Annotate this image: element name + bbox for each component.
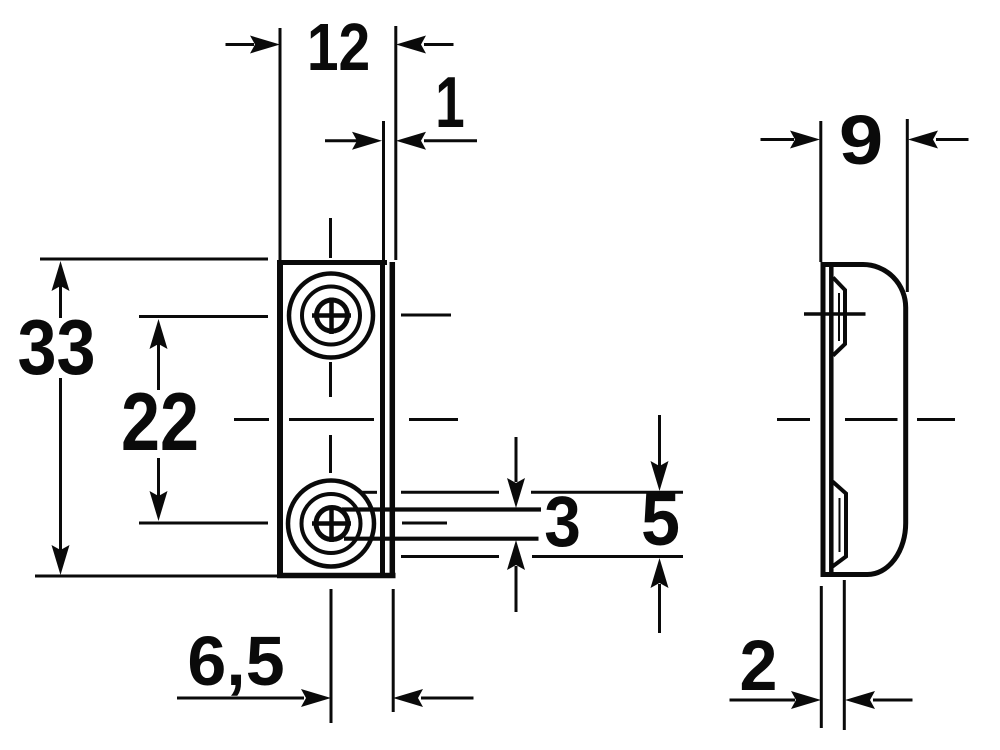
bottom screw hole: outer countersink circle: [288, 481, 374, 567]
horizontal mid centerline left dash: [234, 418, 269, 421]
svg-text:12: 12: [307, 11, 370, 85]
svg-text:6,5: 6,5: [187, 622, 284, 700]
top screw hole: middle circle: [302, 287, 360, 345]
side view: top hole countersink notch: [833, 278, 845, 356]
dim 12: left dimension line: [226, 43, 255, 46]
dim 33: top arrow: [52, 261, 70, 291]
svg-text:5: 5: [641, 479, 680, 561]
dim 5: top extension line left segment: [401, 491, 499, 494]
dim 2: left extension line: [820, 586, 823, 728]
dim 22: bottom arrow: [150, 491, 168, 521]
dim 5: bottom arrow line: [658, 584, 661, 633]
side view: top hole crossing line: [804, 312, 866, 316]
side view: centerline right dash: [917, 418, 955, 421]
dim 33: lower line segment: [59, 378, 62, 550]
dim 33: bottom extension line: [35, 575, 277, 578]
dim 3: bottom arrow line: [515, 566, 518, 612]
dim 9: left arrow: [790, 131, 820, 149]
dim 6.5: left extension line (centerline below plate): [330, 589, 333, 723]
dim 1: right dimension line: [424, 139, 477, 142]
dim 9: right extension line: [906, 119, 909, 292]
top screw hole: outer countersink circle: [289, 274, 373, 358]
dim 12: left arrow: [250, 36, 280, 54]
dim 33: bottom arrow: [52, 545, 70, 575]
svg-text:33: 33: [17, 303, 95, 390]
svg-text:3: 3: [544, 481, 581, 561]
dim 12: left extension line: [279, 28, 282, 260]
side view: bottom notch inner line: [839, 498, 841, 552]
dim 5: bottom extension line right segment: [532, 555, 683, 558]
tongue top line: [342, 507, 541, 511]
dim 5: bottom arrow: [651, 558, 669, 588]
dim 22: upper line segment: [157, 344, 160, 390]
bottom screw hole: cross slot vertical: [329, 506, 334, 542]
dim 1: left dimension line: [325, 139, 357, 142]
dim 2: right extension line: [843, 580, 846, 730]
vertical centerline dash above bottom hole: [329, 435, 332, 473]
dim 22: top extension line: [139, 315, 268, 318]
dim 12: right extension line: [394, 26, 397, 260]
bottom screw hole: cross slot horizontal: [312, 521, 351, 526]
bottom hole centerline dash right of plate: [402, 522, 447, 525]
dim 6.5: left arrow: [301, 689, 331, 707]
front view: plate inner right edge: [380, 261, 385, 577]
top screw hole: cross slot vertical: [329, 298, 334, 335]
top screw hole: cross slot horizontal: [312, 313, 351, 318]
bottom screw hole: middle circle: [302, 494, 361, 553]
dim 6.5: right arrow: [393, 689, 423, 707]
dim 12: right dimension line: [424, 43, 454, 46]
dim 2: right arrow: [845, 691, 875, 709]
front view: plate top edge: [277, 260, 387, 265]
svg-text:2: 2: [740, 626, 778, 706]
dim 22: lower line segment: [157, 458, 160, 496]
dim 5: top arrow line: [658, 415, 661, 466]
horizontal mid centerline middle dash: [289, 418, 374, 421]
side view: centerline middle dash: [845, 418, 898, 421]
dim 6.5: right extension line: [392, 589, 395, 712]
vertical centerline dash above plate: [329, 218, 332, 258]
dim 1: right arrow: [396, 132, 426, 150]
top hole centerline dash right of plate: [401, 314, 451, 317]
dim 2: left arrow: [791, 691, 821, 709]
dim 22: top arrow: [150, 319, 168, 349]
svg-text:22: 22: [121, 377, 199, 469]
side view: bottom hole countersink notch: [833, 482, 847, 567]
dim 33: upper line segment: [59, 286, 62, 318]
dim 5: bottom extension line left segment: [401, 555, 499, 558]
dim 1: extension line: [382, 121, 385, 260]
top screw hole: inner circle: [317, 300, 348, 331]
dim 6.5: left dimension line: [177, 697, 304, 700]
tongue bottom line: [344, 537, 539, 541]
side view: inner face line: [829, 264, 834, 573]
svg-text:9: 9: [839, 101, 883, 179]
dim 3: top arrow: [507, 478, 525, 508]
dim 33: top extension line: [40, 258, 268, 261]
front view: plate bottom edge: [277, 573, 396, 579]
front view: plate outer right edge (lip): [390, 262, 396, 577]
dim 2: left dimension line: [730, 699, 796, 702]
dim 3: bottom arrow: [507, 540, 525, 570]
dim 9: right arrow: [908, 131, 938, 149]
svg-text:1: 1: [435, 63, 464, 143]
side view: centerline left dash: [777, 418, 810, 421]
side view: outline (top edge, right bulge, bottom edge): [823, 265, 906, 575]
dim 1: left arrow: [352, 132, 382, 150]
dim 3: top arrow line: [515, 437, 518, 482]
horizontal mid centerline right dash: [409, 418, 458, 421]
dim 5: top extension line right segment: [531, 491, 683, 494]
bottom screw hole: inner circle: [316, 508, 348, 540]
dim 9: left dimension line: [761, 138, 795, 141]
dim 6.5: right dimension line: [421, 697, 474, 700]
side view: left face line: [821, 262, 826, 577]
dim 5: top extension line short segment in plate: [362, 491, 377, 494]
side view: top notch inner line: [838, 293, 840, 341]
front view: plate left edge: [277, 260, 283, 578]
dim 2: right dimension line: [873, 699, 913, 702]
dim 5: top arrow: [651, 461, 669, 491]
dim 9: right dimension line: [936, 138, 969, 141]
dim 22: bottom extension line: [139, 522, 268, 525]
dim 9: left extension line: [819, 121, 822, 262]
vertical centerline dash below top hole: [329, 362, 332, 397]
dim 12: right arrow: [396, 36, 426, 54]
